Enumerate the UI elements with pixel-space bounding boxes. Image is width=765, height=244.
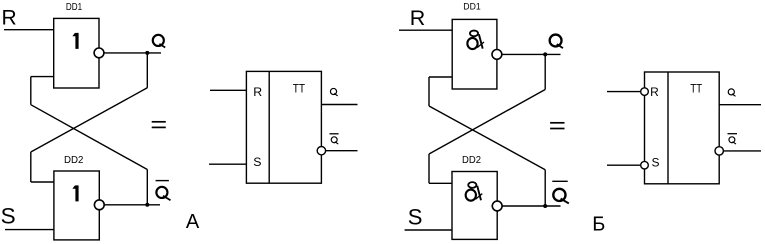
svg-text:TT: TT	[293, 82, 306, 96]
svg-text:DD1: DD1	[463, 2, 480, 13]
svg-text:DD2: DD2	[64, 155, 84, 166]
svg-text:DD1: DD1	[66, 2, 83, 13]
svg-text:S: S	[253, 155, 261, 169]
svg-text:S: S	[1, 204, 16, 229]
svg-text:TT: TT	[690, 82, 703, 96]
svg-text:DD2: DD2	[462, 155, 481, 166]
svg-text:R: R	[2, 6, 17, 29]
svg-text:Б: Б	[592, 214, 605, 236]
svg-text:R: R	[650, 85, 659, 99]
svg-text:S: S	[652, 156, 660, 170]
svg-text:А: А	[186, 211, 200, 233]
svg-text:S: S	[408, 205, 423, 230]
svg-text:R: R	[410, 6, 426, 30]
svg-text:R: R	[253, 85, 262, 99]
